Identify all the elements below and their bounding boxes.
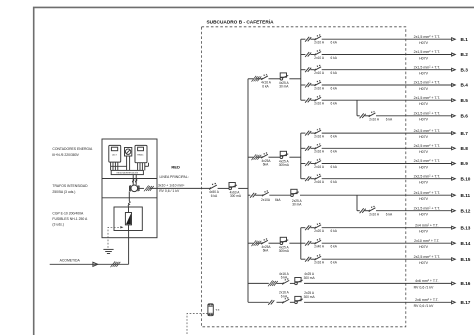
svg-text:H07V: H07V <box>419 165 429 169</box>
flexible coil mark <box>128 201 130 206</box>
cable marker B.5 <box>305 98 311 103</box>
cable marker B.16 <box>268 281 278 287</box>
main RCD 4x63A 300mA <box>229 187 232 190</box>
cable marker G1 <box>251 76 261 82</box>
svg-text:H07V: H07V <box>419 197 429 201</box>
svg-text:6 kA: 6 kA <box>331 86 338 90</box>
svg-text:2x10 A: 2x10 A <box>314 56 325 60</box>
svg-text:2x1,5 mm² + T.T.: 2x1,5 mm² + T.T. <box>414 50 440 54</box>
cable marker B.7 <box>305 131 311 136</box>
svg-text:B.4: B.4 <box>461 83 469 88</box>
circuit B.9 wire <box>301 163 306 165</box>
svg-text:2x1,5 mm² + T.T.: 2x1,5 mm² + T.T. <box>414 191 440 195</box>
svg-text:2x10 A: 2x10 A <box>369 117 380 121</box>
svg-text:B.17: B.17 <box>461 300 471 305</box>
cable marker B.1 <box>305 37 311 42</box>
breaker B.10 2x16 A 6kA <box>315 176 321 180</box>
sub-bus group 2 <box>300 133 302 179</box>
svg-text:(3 uds.): (3 uds.) <box>52 223 64 227</box>
svg-text:2x1,5 mm² + T.T.: 2x1,5 mm² + T.T. <box>414 65 440 69</box>
RCD B.11 2x25A 30mA <box>291 194 294 197</box>
outgoing arrow B.4 <box>452 84 456 87</box>
terminal strip REGLETA VERIFICACION <box>111 170 143 174</box>
svg-text:2x16 A: 2x16 A <box>314 165 325 169</box>
svg-text:6 kA: 6 kA <box>331 245 338 249</box>
outgoing arrow B.11 <box>452 194 456 197</box>
breaker B.4 2x10 A 6kA <box>315 82 321 86</box>
svg-text:RV 0,6 / 1 kV: RV 0,6 / 1 kV <box>159 189 180 193</box>
outgoing arrow B.12 <box>452 209 456 212</box>
wire RCD to sub-bus G1 <box>289 78 300 80</box>
svg-text:SUBCUADRO B - CAFETERÍA: SUBCUADRO B - CAFETERÍA <box>207 17 275 25</box>
svg-text:III+N /5 220/380V: III+N /5 220/380V <box>52 153 79 157</box>
meter cabinet box <box>102 139 157 238</box>
svg-text:2x2,5 mm² + T.T.: 2x2,5 mm² + T.T. <box>414 174 440 178</box>
wire bus to group breaker G1 <box>248 78 253 80</box>
svg-text:2x2,5 mm² + T.T.: 2x2,5 mm² + T.T. <box>414 144 440 148</box>
svg-text:6 kA: 6 kA <box>211 194 218 198</box>
svg-text:H07V: H07V <box>419 102 429 106</box>
outgoing arrow B.6 <box>452 114 456 117</box>
svg-text:CONTADORES ENERGIA: CONTADORES ENERGIA <box>52 147 93 151</box>
breaker B.14 2x40 A 6kA <box>315 240 321 244</box>
cabinet section divider 1 <box>102 178 157 180</box>
sub-bus group 1 <box>300 39 302 100</box>
circuit B.14 wire <box>301 242 306 244</box>
outgoing arrow B.5 <box>452 99 456 102</box>
meter wiring to terminal strip <box>110 162 112 170</box>
svg-text:B.3: B.3 <box>461 67 469 72</box>
drop wire to B.12 <box>356 195 358 211</box>
svg-text:H07V: H07V <box>419 181 429 185</box>
svg-text:T.T.: T.T. <box>215 308 220 312</box>
cable marker B.14 <box>305 241 311 246</box>
cable marker B.12 <box>360 208 366 213</box>
svg-text:2x1,5 mm² + T.T.: 2x1,5 mm² + T.T. <box>414 96 440 100</box>
svg-text:2x20 A: 2x20 A <box>314 229 325 233</box>
outgoing arrow B.10 <box>452 177 456 180</box>
svg-text:6 kA: 6 kA <box>386 117 393 121</box>
wire CGP to acometida <box>128 231 130 265</box>
outgoing arrow B.17 <box>452 301 456 304</box>
acometida feeder wire <box>50 263 129 265</box>
breaker B.3 2x10 A 6kA <box>315 67 321 71</box>
wire bus to group breaker G3 <box>248 242 253 244</box>
sub-bus group 3 <box>300 228 302 260</box>
svg-text:B.6: B.6 <box>461 114 469 119</box>
svg-text:6 kA: 6 kA <box>331 180 338 184</box>
svg-text:4x6 mm² + T.T.: 4x6 mm² + T.T. <box>415 279 439 283</box>
svg-text:6 kA: 6 kA <box>281 276 288 280</box>
svg-text:2x16 A: 2x16 A <box>314 180 325 184</box>
svg-text:2x10 A: 2x10 A <box>369 212 380 216</box>
svg-text:300 mA: 300 mA <box>304 295 316 299</box>
svg-text:2x4 mm² + T.T.: 2x4 mm² + T.T. <box>415 223 439 227</box>
svg-text:H07V: H07V <box>419 135 429 139</box>
breaker B.5 2x10 A 6kA <box>315 97 321 101</box>
wire RCD to sub-bus G2 <box>289 156 300 158</box>
svg-text:6 kA: 6 kA <box>386 212 393 216</box>
cable marker B.4 <box>305 83 311 88</box>
svg-text:H07V: H07V <box>419 87 429 91</box>
breaker B.16 4x16 A 6kA <box>283 280 290 284</box>
svg-text:6kA: 6kA <box>263 249 269 253</box>
svg-text:6 kA: 6 kA <box>331 41 338 45</box>
wire RCD to main bus <box>238 187 248 189</box>
cable marker G2 <box>251 154 261 160</box>
svg-text:2x10 A: 2x10 A <box>314 102 325 106</box>
cable marker B.15 <box>305 257 311 262</box>
acometida cable marker 4 cond <box>110 261 120 267</box>
svg-text:B.7: B.7 <box>461 131 469 136</box>
svg-text:2x10 A: 2x10 A <box>314 71 325 75</box>
breaker B.17 2x16 A 6kA <box>283 299 290 303</box>
svg-text:FUSIBLES NH-1 250 A: FUSIBLES NH-1 250 A <box>52 217 88 221</box>
svg-text:250/5A (3 uds.): 250/5A (3 uds.) <box>52 190 75 194</box>
svg-text:2x6 mm² + T.T.: 2x6 mm² + T.T. <box>415 298 439 302</box>
outgoing arrow B.7 <box>452 132 456 135</box>
group RCD G3 4x25 A 300mA <box>280 242 283 245</box>
svg-text:6 kA: 6 kA <box>331 135 338 139</box>
svg-text:H07V: H07V <box>419 72 429 76</box>
cabinet section divider 2 <box>102 197 157 199</box>
group breaker G3 4x25A 6kA <box>262 240 268 244</box>
svg-text:6 kA: 6 kA <box>331 261 338 265</box>
svg-text:300mA: 300mA <box>279 163 290 167</box>
svg-text:3x10 + 1x10 mm²: 3x10 + 1x10 mm² <box>158 183 185 187</box>
subpanel dashed enclosure SUBCUADRO B <box>202 27 406 327</box>
svg-text:2x10A: 2x10A <box>261 198 271 202</box>
svg-text:REAC: REAC <box>137 154 143 157</box>
cable marker B.2 <box>305 52 311 57</box>
svg-text:REGLETA VERIFICACIÓN: REGLETA VERIFICACIÓN <box>117 172 139 175</box>
cable marker B.10 <box>305 176 311 181</box>
circuit B.4 wire <box>301 84 306 86</box>
CGP enclosure <box>114 207 142 231</box>
svg-text:H07V: H07V <box>419 245 429 249</box>
circuit B.16 feed wire <box>248 282 269 284</box>
energy meter ACT <box>109 145 121 162</box>
svg-text:2x10 mm² + T.T.: 2x10 mm² + T.T. <box>414 239 440 243</box>
earth terminal T.T. <box>208 304 213 316</box>
svg-text:2x40 A: 2x40 A <box>314 245 325 249</box>
svg-text:H07V: H07V <box>419 41 429 45</box>
svg-text:6 kA: 6 kA <box>331 229 338 233</box>
svg-text:B.11: B.11 <box>461 193 471 198</box>
coil mark on CT leads <box>132 179 137 182</box>
cable marker B.3 <box>305 67 311 72</box>
circuit B.2 wire <box>301 54 306 56</box>
svg-text:2x16 A: 2x16 A <box>314 135 325 139</box>
svg-text:B.8: B.8 <box>461 146 469 151</box>
group breaker G1 4x16 A 6 kA <box>262 76 268 80</box>
breaker B.8 2x16 A 6kA <box>315 145 321 149</box>
svg-text:2x1,5 mm² + T.T.: 2x1,5 mm² + T.T. <box>414 112 440 116</box>
svg-text:H07V: H07V <box>419 56 429 60</box>
circuit B.8 wire <box>301 147 306 149</box>
outgoing arrow B.3 <box>452 68 456 71</box>
svg-text:RV 0,6 /1 kV: RV 0,6 /1 kV <box>414 304 434 308</box>
outgoing arrow B.1 <box>452 38 456 41</box>
svg-text:2x1,5 mm² + T.T.: 2x1,5 mm² + T.T. <box>414 206 440 210</box>
wire RCD to sub-bus G3 <box>289 242 300 244</box>
outgoing arrow B.9 <box>452 162 456 165</box>
svg-text:B.12: B.12 <box>461 208 471 213</box>
circuit B.15 wire <box>301 258 306 260</box>
svg-text:ACT: ACT <box>112 154 117 157</box>
svg-text:B.10: B.10 <box>461 176 471 181</box>
svg-text:RV 0,6 /1 kV: RV 0,6 /1 kV <box>414 285 434 289</box>
wire bus to group breaker G2 <box>248 156 253 158</box>
RCD B.17 2x25 A 300mA <box>295 301 298 304</box>
current transformer CT 250/5A <box>131 185 138 192</box>
circuit B.10 wire <box>301 178 306 180</box>
group RCD G1 4x25 A 30 mA <box>280 78 283 81</box>
svg-text:2x16 A: 2x16 A <box>314 261 325 265</box>
svg-text:2x2,5 mm² + T.T.: 2x2,5 mm² + T.T. <box>414 129 440 133</box>
svg-text:RED: RED <box>171 165 180 170</box>
fuse switch NH-1 <box>125 213 131 225</box>
cable marker B.8 <box>305 146 311 151</box>
acometida arrow <box>93 262 98 266</box>
breaker B.12 2x10A 6kA <box>369 208 375 212</box>
RCD B.16 4x25 A 300mA <box>295 282 298 285</box>
svg-text:6 kA: 6 kA <box>281 294 288 298</box>
cable marker B.11 <box>250 193 256 198</box>
svg-text:6 kA: 6 kA <box>262 84 269 88</box>
cable marker B.17 <box>268 300 274 305</box>
outgoing arrow B.2 <box>452 53 456 56</box>
svg-text:300mA: 300mA <box>279 249 290 253</box>
svg-text:300 mA: 300 mA <box>304 276 316 280</box>
svg-text:6kA: 6kA <box>275 198 281 202</box>
svg-text:6 kA: 6 kA <box>331 56 338 60</box>
energy meter REAC <box>135 145 147 162</box>
svg-text:2x1,5 mm² + T.T.: 2x1,5 mm² + T.T. <box>414 35 440 39</box>
svg-text:ACOMETIDA: ACOMETIDA <box>60 258 81 262</box>
circuit B.5 wire <box>301 99 306 101</box>
svg-text:2x1,5 mm² + T.T.: 2x1,5 mm² + T.T. <box>414 81 440 85</box>
dashed earth link with arrow <box>108 227 122 249</box>
drop wire to B.6 <box>356 100 358 116</box>
breaker B.15 2x16 A 6kA <box>315 256 321 260</box>
breaker B.2 2x10 A 6kA <box>315 52 321 56</box>
outgoing arrow B.14 <box>452 242 456 245</box>
cable marker B.9 <box>305 161 311 166</box>
breaker B.6 2x10A 6kA <box>369 113 375 117</box>
svg-text:30 mA: 30 mA <box>279 85 289 89</box>
main line cable marker <box>144 186 154 192</box>
svg-text:2x2,5 mm² + T.T.: 2x2,5 mm² + T.T. <box>414 255 440 259</box>
svg-text:B.9: B.9 <box>461 161 469 166</box>
svg-text:6 kA: 6 kA <box>331 150 338 154</box>
wire CT down to CGP <box>128 191 130 201</box>
svg-text:6 kA: 6 kA <box>331 165 338 169</box>
breaker B.11 2x10A 6kA <box>262 192 268 196</box>
outgoing arrow B.13 <box>452 226 456 229</box>
svg-text:B.1: B.1 <box>461 37 469 42</box>
cable marker G3 <box>251 240 261 246</box>
svg-text:6 kA: 6 kA <box>331 102 338 106</box>
svg-text:B.14: B.14 <box>461 241 471 246</box>
svg-text:H07V: H07V <box>419 261 429 265</box>
circuit B.13 wire <box>301 227 306 229</box>
svg-text:H07V: H07V <box>419 213 429 217</box>
group breaker G2 4x25A 6kA <box>262 154 268 158</box>
svg-text:B.2: B.2 <box>461 52 469 57</box>
svg-text:H07V: H07V <box>419 150 429 154</box>
circuit B.1 wire <box>301 38 306 40</box>
outgoing arrow B.16 <box>452 282 456 285</box>
svg-text:LINEA PRINCIPAL:: LINEA PRINCIPAL: <box>160 175 189 179</box>
outgoing arrow B.8 <box>452 147 456 150</box>
dashed earth wire from T.T. <box>187 314 208 335</box>
main line wire CT to main breaker <box>138 187 144 189</box>
svg-text:B.16: B.16 <box>461 281 471 286</box>
outgoing arrow B.15 <box>452 258 456 261</box>
svg-text:B.5: B.5 <box>461 98 469 103</box>
breaker B.7 2x16 A 6kA <box>315 130 321 134</box>
svg-text:6 kA: 6 kA <box>331 71 338 75</box>
svg-text:2x16 A: 2x16 A <box>314 150 325 154</box>
breaker B.9 2x16 A 6kA <box>315 161 321 165</box>
main distribution bus <box>247 79 249 302</box>
svg-text:6kA: 6kA <box>263 163 269 167</box>
svg-text:B.13: B.13 <box>461 225 471 230</box>
svg-text:CGP E-10 200/400A: CGP E-10 200/400A <box>52 212 84 216</box>
main breaker 4x50A 6kA <box>210 185 217 189</box>
breaker B.13 2x20 A 6kA <box>315 225 321 229</box>
time clock <box>125 148 132 157</box>
circuit B.17 feed wire <box>248 301 269 303</box>
circuit B.11 feed wire <box>248 194 250 196</box>
svg-text:H07V: H07V <box>419 230 429 234</box>
group RCD G2 4x25 A 300mA <box>280 156 283 159</box>
svg-text:2x10 A: 2x10 A <box>314 41 325 45</box>
breaker B.1 2x10 A 6kA <box>315 36 321 40</box>
svg-text:B.15: B.15 <box>461 257 471 262</box>
cable marker B.13 <box>305 225 311 230</box>
svg-text:30 mA: 30 mA <box>292 203 302 207</box>
earth electrode symbol <box>103 248 113 250</box>
circuit B.3 wire <box>301 69 306 71</box>
circuit B.7 wire <box>301 132 306 134</box>
svg-text:TRAFOS INTENSIDAD: TRAFOS INTENSIDAD <box>52 184 88 188</box>
svg-text:H07V: H07V <box>419 118 429 122</box>
svg-text:2x2,5 mm² + T.T.: 2x2,5 mm² + T.T. <box>414 159 440 163</box>
cable marker B.6 <box>360 113 366 118</box>
wire regleta to CT <box>132 175 134 185</box>
svg-text:2x10 A: 2x10 A <box>314 86 325 90</box>
svg-text:300 mA: 300 mA <box>230 194 242 198</box>
